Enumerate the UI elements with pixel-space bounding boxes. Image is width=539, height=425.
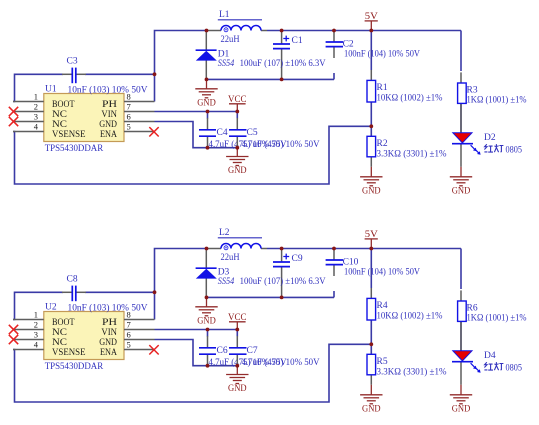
svg-text:C6: C6 bbox=[217, 346, 228, 356]
svg-text:ENA: ENA bbox=[100, 348, 117, 358]
svg-text:4: 4 bbox=[34, 122, 39, 132]
svg-text:SS54: SS54 bbox=[218, 59, 235, 69]
junction VIN/VCC bbox=[235, 110, 239, 114]
svg-text:0805: 0805 bbox=[506, 145, 523, 155]
junction rail/C2 bbox=[332, 29, 336, 33]
junction PH rail/diode bbox=[205, 29, 209, 33]
junction return/diode bbox=[205, 78, 209, 82]
junction gndnet/C5 bbox=[235, 146, 239, 150]
junction VIN/C4 bbox=[206, 328, 210, 332]
no-connect X pin2 U2 bbox=[9, 325, 18, 334]
resistor R1 10K bbox=[367, 70, 376, 102]
wire VIN net: pin7 U2 to VCC bbox=[155, 329, 238, 331]
junction rail/C1 bbox=[280, 247, 284, 251]
junction gndnet/C4 bbox=[206, 364, 210, 368]
capacitor C5 4.7uF input bbox=[229, 112, 247, 148]
wire R6 to D4 bbox=[460, 322, 462, 351]
pin 1 BOOT of U2 bbox=[13, 310, 75, 328]
svg-text:TPS5430DDAR: TPS5430DDAR bbox=[45, 362, 104, 372]
capacitor C2 100nF bbox=[326, 31, 343, 59]
svg-text:VIN: VIN bbox=[101, 328, 117, 338]
inductor L1 22uH bbox=[207, 20, 268, 32]
svg-text:10nF (103) 10% 50V: 10nF (103) 10% 50V bbox=[68, 302, 148, 313]
svg-text:BOOT: BOOT bbox=[52, 100, 75, 110]
svg-text:4.7uF (475) 10% 50V: 4.7uF (475) 10% 50V bbox=[242, 357, 320, 368]
svg-text:100uF (107) ±10% 6.3V: 100uF (107) ±10% 6.3V bbox=[240, 58, 326, 69]
pin 5 ENA of U1 bbox=[100, 122, 155, 140]
svg-text:GND: GND bbox=[228, 165, 247, 175]
svg-text:GND: GND bbox=[452, 403, 471, 413]
ground under R5 bbox=[360, 385, 382, 414]
svg-text:10KΩ (1002) ±1%: 10KΩ (1002) ±1% bbox=[377, 92, 443, 103]
no-connect X pin2 U1 bbox=[9, 107, 18, 116]
svg-text:GND: GND bbox=[99, 338, 117, 348]
svg-text:22uH: 22uH bbox=[221, 35, 240, 45]
svg-text:5V: 5V bbox=[365, 12, 378, 22]
wire PH net vertical from pin8 U2 up to top rail bbox=[155, 249, 207, 320]
pin 3 NC of U1 bbox=[13, 112, 67, 130]
junction return/C1 bbox=[280, 296, 284, 300]
resistor R6 1K bbox=[458, 290, 467, 336]
wire VIN net: pin7 U1 to VCC bbox=[155, 111, 238, 113]
svg-text:R1: R1 bbox=[377, 83, 388, 93]
svg-text:5V: 5V bbox=[365, 230, 378, 240]
junction VIN/VCC bbox=[235, 328, 239, 332]
junction return/C1 bbox=[280, 78, 284, 82]
junction rail/C1 bbox=[280, 29, 284, 33]
power port VCC bbox=[228, 313, 247, 330]
wire top output rail from L1 to right corner bbox=[267, 30, 461, 32]
resistor R3 1K bbox=[458, 72, 467, 118]
svg-text:100nF (104) 10% 50V: 100nF (104) 10% 50V bbox=[344, 49, 420, 60]
svg-text:10nF (103) 10% 50V: 10nF (103) 10% 50V bbox=[68, 84, 148, 95]
junction divider bbox=[369, 342, 373, 346]
wire PH net vertical from pin8 U1 up to top rail bbox=[155, 31, 207, 102]
diode D1 SS54 schottky bbox=[196, 31, 217, 80]
junction PH/C3 bbox=[153, 72, 157, 76]
capacitor C10 100nF bbox=[326, 249, 343, 277]
svg-text:GND: GND bbox=[362, 185, 381, 195]
svg-text:GND: GND bbox=[99, 120, 117, 130]
junction rail/5V bbox=[369, 29, 373, 33]
pin 2 NC of U1 bbox=[13, 102, 67, 120]
svg-text:1: 1 bbox=[34, 310, 38, 320]
ground under D4 bbox=[450, 385, 472, 414]
svg-text:3: 3 bbox=[34, 330, 38, 340]
diode D3 SS54 schottky bbox=[196, 249, 217, 298]
capacitor C3 10nF bootstrap bbox=[62, 68, 86, 84]
pin 8 PH of U1 bbox=[102, 92, 155, 110]
svg-text:C10: C10 bbox=[343, 257, 359, 267]
junction gndnet/C5 bbox=[235, 364, 239, 368]
junction return/diode bbox=[205, 296, 209, 300]
svg-text:7: 7 bbox=[127, 320, 131, 330]
wire output ground return under C9 C10 bbox=[207, 296, 335, 298]
junction PH rail/diode bbox=[205, 247, 209, 251]
svg-text:VCC: VCC bbox=[228, 95, 247, 105]
svg-text:C5: C5 bbox=[247, 128, 258, 138]
svg-text:VIN: VIN bbox=[101, 110, 117, 120]
pin 8 PH of U2 bbox=[102, 310, 155, 328]
wire 5V rail down to R1 bbox=[370, 31, 372, 71]
svg-text:U2: U2 bbox=[45, 303, 57, 313]
svg-text:GND: GND bbox=[197, 97, 216, 107]
LED D4 red 0805 bbox=[452, 336, 481, 385]
svg-text:GND: GND bbox=[362, 403, 381, 413]
wire C8 right plate to PH vertical bbox=[85, 291, 155, 293]
pin 2 NC of U2 bbox=[13, 320, 67, 338]
capacitor C6 4.7uF input bbox=[199, 330, 216, 366]
svg-text:SS54: SS54 bbox=[218, 277, 235, 287]
resistor R4 10K bbox=[367, 288, 376, 320]
resistor R2 3.3K bbox=[367, 136, 376, 167]
IC U2 TPS5430DDAR regulator body bbox=[44, 312, 124, 360]
wire VSENSE feedback loop from pin4 U1 to divider junction bbox=[13, 126, 371, 184]
svg-text:C2: C2 bbox=[343, 39, 354, 49]
wire top output rail from L2 to right corner bbox=[267, 248, 461, 250]
wire C2 bottom stub bbox=[333, 73, 335, 79]
pin 7 VIN of U2 bbox=[101, 320, 154, 338]
wire R4 to R5 divider bbox=[370, 320, 372, 354]
wire R1 to R2 divider bbox=[370, 102, 372, 136]
svg-text:PH: PH bbox=[102, 318, 117, 328]
wire output ground return under C1 C2 bbox=[207, 78, 335, 80]
value label red LED of D4 bbox=[484, 362, 503, 370]
svg-text:PH: PH bbox=[102, 100, 117, 110]
svg-text:NC: NC bbox=[52, 328, 67, 338]
pin 4 VSENSE of U1 bbox=[13, 122, 86, 140]
ground under C7 bbox=[226, 365, 248, 394]
wire right rail down to R3 bbox=[460, 31, 462, 72]
svg-text:C9: C9 bbox=[292, 254, 303, 264]
svg-text:VSENSE: VSENSE bbox=[52, 130, 86, 140]
svg-text:7: 7 bbox=[127, 102, 131, 112]
svg-text:ENA: ENA bbox=[100, 130, 117, 140]
svg-text:6: 6 bbox=[127, 112, 131, 122]
IC U1 TPS5430DDAR regulator body bbox=[44, 94, 124, 142]
svg-text:3.3KΩ (3301) ±1%: 3.3KΩ (3301) ±1% bbox=[377, 148, 447, 159]
svg-text:TPS5430DDAR: TPS5430DDAR bbox=[45, 144, 104, 154]
svg-text:GND: GND bbox=[452, 185, 471, 195]
svg-text:NC: NC bbox=[52, 110, 67, 120]
junction rail/5V bbox=[369, 247, 373, 251]
svg-text:VSENSE: VSENSE bbox=[52, 348, 86, 358]
wire C10 bottom stub bbox=[333, 291, 335, 297]
svg-text:4: 4 bbox=[34, 340, 39, 350]
svg-text:U1: U1 bbox=[45, 85, 57, 95]
resistor R5 3.3K bbox=[367, 354, 376, 385]
value label red LED of D2 bbox=[484, 144, 503, 152]
svg-text:R5: R5 bbox=[377, 357, 388, 367]
svg-text:L2: L2 bbox=[219, 228, 230, 238]
svg-text:NC: NC bbox=[52, 120, 67, 130]
svg-text:100nF (104) 10% 50V: 100nF (104) 10% 50V bbox=[344, 267, 420, 278]
no-connect X pin5 ENA U1 bbox=[149, 127, 158, 136]
svg-text:3.3KΩ (3301) ±1%: 3.3KΩ (3301) ±1% bbox=[377, 366, 447, 377]
svg-text:C1: C1 bbox=[292, 36, 303, 46]
power port VCC bbox=[228, 95, 247, 112]
pin 1 BOOT of U1 bbox=[13, 92, 75, 110]
svg-text:VCC: VCC bbox=[228, 313, 247, 323]
ground under D3 bbox=[195, 297, 217, 326]
wire C3 right plate to PH vertical bbox=[85, 73, 155, 75]
svg-text:3: 3 bbox=[34, 112, 38, 122]
wire right rail down to R6 bbox=[460, 249, 462, 290]
svg-text:100uF (107) ±10% 6.3V: 100uF (107) ±10% 6.3V bbox=[240, 276, 326, 287]
pin 5 ENA of U2 bbox=[100, 340, 155, 358]
svg-text:D4: D4 bbox=[484, 351, 496, 361]
svg-text:2: 2 bbox=[34, 320, 38, 330]
svg-text:R4: R4 bbox=[377, 301, 388, 311]
junction gndnet/C4 bbox=[206, 146, 210, 150]
svg-text:22uH: 22uH bbox=[221, 253, 240, 263]
ground under R2 bbox=[360, 167, 382, 196]
wire 5V rail down to R4 bbox=[370, 249, 372, 289]
capacitor C4 4.7uF input bbox=[199, 112, 216, 148]
svg-text:0805: 0805 bbox=[506, 363, 523, 373]
svg-text:R2: R2 bbox=[377, 139, 388, 149]
svg-text:5: 5 bbox=[127, 340, 131, 350]
wire GND pin net: pin6 U2 jog to C6 C7 bottoms bbox=[155, 340, 238, 366]
power port 5V bbox=[365, 230, 378, 249]
svg-text:4.7uF (475) 10% 50V: 4.7uF (475) 10% 50V bbox=[242, 139, 320, 150]
svg-text:C7: C7 bbox=[247, 346, 258, 356]
svg-text:R6: R6 bbox=[467, 303, 478, 313]
capacitor C9 100uF polarized bbox=[273, 249, 290, 298]
pin 4 VSENSE of U2 bbox=[13, 340, 86, 358]
svg-text:6: 6 bbox=[127, 330, 131, 340]
wire BOOT net: pin1 U1 to C3 bbox=[13, 74, 63, 101]
junction PH/C3 bbox=[153, 290, 157, 294]
capacitor C1 100uF polarized bbox=[273, 31, 290, 80]
power port 5V bbox=[365, 12, 378, 31]
svg-text:5: 5 bbox=[127, 122, 131, 132]
pin 6 GND of U1 bbox=[99, 112, 154, 130]
pin 7 VIN of U1 bbox=[101, 102, 154, 120]
ground under D1 bbox=[195, 79, 217, 108]
junction divider bbox=[369, 124, 373, 128]
junction rail/C2 bbox=[332, 247, 336, 251]
wire VSENSE feedback loop from pin4 U2 to divider junction bbox=[13, 344, 371, 402]
junction VIN/C4 bbox=[206, 110, 210, 114]
svg-text:L1: L1 bbox=[219, 10, 230, 20]
svg-text:1KΩ (1001) ±1%: 1KΩ (1001) ±1% bbox=[467, 94, 527, 105]
ground under C5 bbox=[226, 147, 248, 176]
svg-text:10KΩ (1002) ±1%: 10KΩ (1002) ±1% bbox=[377, 310, 443, 321]
no-connect X pin3 U1 bbox=[9, 117, 18, 126]
svg-text:2: 2 bbox=[34, 102, 38, 112]
ground under D2 bbox=[450, 167, 472, 196]
svg-text:1KΩ (1001) ±1%: 1KΩ (1001) ±1% bbox=[467, 312, 527, 323]
svg-text:C8: C8 bbox=[67, 275, 78, 285]
no-connect X pin5 ENA U2 bbox=[149, 345, 158, 354]
svg-text:D2: D2 bbox=[484, 133, 496, 143]
svg-text:BOOT: BOOT bbox=[52, 318, 75, 328]
wire R3 to D2 bbox=[460, 104, 462, 133]
capacitor C8 10nF bootstrap bbox=[62, 286, 86, 302]
svg-text:1: 1 bbox=[34, 92, 38, 102]
svg-text:C3: C3 bbox=[67, 57, 78, 67]
svg-text:R3: R3 bbox=[467, 85, 478, 95]
svg-text:C4: C4 bbox=[217, 128, 228, 138]
svg-text:NC: NC bbox=[52, 338, 67, 348]
LED D2 red 0805 bbox=[452, 118, 481, 167]
pin 3 NC of U2 bbox=[13, 330, 67, 348]
pin 6 GND of U2 bbox=[99, 330, 154, 348]
wire BOOT net: pin1 U2 to C8 bbox=[13, 292, 63, 319]
svg-text:GND: GND bbox=[197, 315, 216, 325]
wire GND pin net: pin6 U1 jog to C4 C5 bottoms bbox=[155, 122, 238, 148]
no-connect X pin3 U2 bbox=[9, 335, 18, 344]
svg-text:GND: GND bbox=[228, 383, 247, 393]
capacitor C7 4.7uF input bbox=[229, 330, 247, 366]
inductor L2 22uH bbox=[207, 238, 268, 250]
